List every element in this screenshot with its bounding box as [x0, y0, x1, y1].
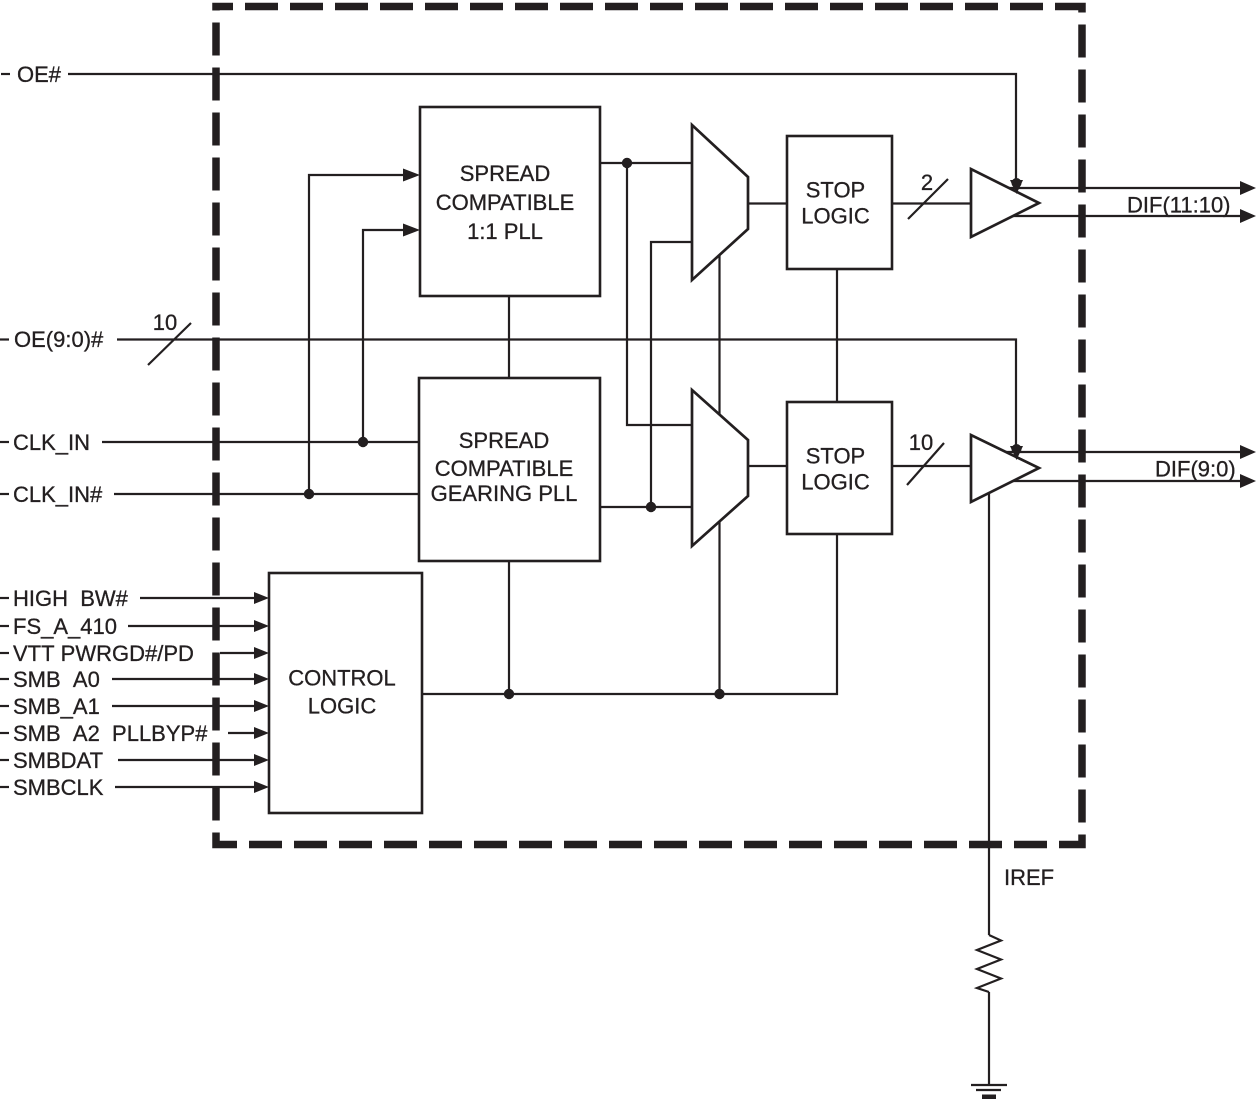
wire PLL2 output to mux M2 input B — [600, 506, 692, 508]
svg-text:VTT PWRGD#/PD: VTT PWRGD#/PD — [13, 641, 194, 666]
svg-text:OE#: OE# — [17, 62, 62, 87]
svg-text:CONTROL: CONTROL — [288, 666, 396, 691]
svg-text:IREF: IREF — [1004, 865, 1054, 890]
mux M2 lower — [692, 390, 748, 546]
svg-text:SPREAD: SPREAD — [459, 428, 549, 453]
wire OE# horizontal and down to buffer U1 — [68, 74, 1016, 182]
svg-text:COMPATIBLE: COMPATIBLE — [435, 456, 574, 481]
junction CLK_IN# — [304, 489, 314, 499]
wire stop logic S1 bottom to stop logic S2 top — [836, 269, 838, 402]
wire SMB_A1 — [112, 705, 256, 707]
wire stop logic S2 output to buffer U2 — [892, 465, 971, 467]
mux M1 upper — [692, 125, 748, 280]
wire SMBDAT — [118, 759, 256, 761]
buffer U1 upper output driver — [971, 169, 1039, 237]
svg-text:LOGIC: LOGIC — [801, 470, 870, 495]
wire resistor to ground — [988, 992, 990, 1085]
wire PLL1 output to mux M1 input A — [600, 162, 692, 164]
bus slash 10b — [907, 443, 944, 485]
wire node A branch down to mux M2 input A — [627, 163, 692, 425]
svg-text:10: 10 — [153, 310, 177, 335]
wire CLK_IN# branch up to 1:1 PLL upper input — [309, 175, 405, 494]
svg-text:STOP: STOP — [806, 444, 866, 469]
wire mux select vertical — [718, 255, 720, 694]
junction CLK_IN — [358, 437, 368, 447]
wire VTT PWRGD#/PD — [220, 652, 256, 654]
wire stop logic S1 output to buffer U1 — [892, 202, 971, 204]
pin dash CLK_IN — [0, 441, 9, 443]
wire control logic output bus — [422, 534, 837, 694]
wire SMBCLK — [115, 786, 256, 788]
wire HIGH BW# — [140, 597, 256, 599]
wire DIF(9:0) output complement — [1013, 480, 1241, 482]
svg-text:10: 10 — [909, 430, 933, 455]
ground — [971, 1084, 1007, 1086]
box U3 control logic — [269, 573, 422, 813]
svg-text:COMPATIBLE: COMPATIBLE — [436, 190, 575, 215]
svg-text:STOP: STOP — [806, 178, 866, 203]
wire PLL1 to PLL2 vertical — [508, 296, 510, 378]
arrow OE# into buffer U1 — [1010, 180, 1023, 194]
svg-text:LOGIC: LOGIC — [308, 694, 377, 719]
junction control-select — [714, 689, 724, 699]
svg-text:SMB A2 PLLBYP#: SMB A2 PLLBYP# — [13, 721, 208, 746]
wire FS_A_410 — [128, 625, 256, 627]
buffer U2 lower output driver — [971, 435, 1039, 502]
svg-text:1:1 PLL: 1:1 PLL — [467, 219, 543, 244]
wire SMB A0 — [112, 678, 256, 680]
svg-text:GEARING PLL: GEARING PLL — [431, 481, 578, 506]
svg-text:LOGIC: LOGIC — [801, 204, 870, 229]
svg-text:2: 2 — [921, 170, 933, 195]
dashed chip boundary — [216, 7, 1082, 845]
svg-text:SMBDAT: SMBDAT — [13, 748, 103, 773]
arrow into PLL1 upper input — [403, 169, 420, 182]
junction node B — [646, 502, 656, 512]
junction control-PLL2 — [504, 689, 514, 699]
wire mux M2 output to stop logic S2 — [748, 465, 787, 467]
svg-text:HIGH BW#: HIGH BW# — [13, 586, 129, 611]
wire mux M1 output to stop logic S1 — [748, 202, 787, 204]
svg-text:DIF(9:0): DIF(9:0) — [1155, 457, 1236, 482]
svg-text:SPREAD: SPREAD — [460, 161, 550, 186]
wire SMB A2 PLLBYP# — [228, 732, 256, 734]
svg-text:DIF(11:10): DIF(11:10) — [1127, 193, 1231, 218]
wire IREF from buffer U2 down — [988, 493, 990, 935]
box S1 stop logic upper — [787, 136, 892, 269]
resistor R1 — [977, 935, 1001, 992]
svg-text:SMBCLK: SMBCLK — [13, 775, 104, 800]
svg-text:OE(9:0)#: OE(9:0)# — [14, 327, 104, 352]
pin dash OE# — [1, 73, 10, 75]
bus slash 2 — [908, 179, 948, 219]
wire CLK_IN# to gearing PLL — [114, 493, 419, 495]
box PLL2 spread compatible gearing PLL — [419, 378, 600, 561]
wire PLL2 bottom to control bus — [508, 561, 510, 694]
pin dash CLK_IN# — [0, 493, 9, 495]
wire node B branch up to mux M1 input B — [651, 242, 692, 507]
svg-text:SMB_A1: SMB_A1 — [13, 694, 100, 719]
arrow OE(9:0)# into buffer U2 — [1010, 446, 1023, 460]
box PLL1 spread compatible 1:1 PLL — [420, 107, 600, 296]
svg-text:CLK_IN: CLK_IN — [13, 430, 90, 455]
box S2 stop logic lower — [787, 402, 892, 534]
bus slash OE(9:0)# — [148, 323, 191, 365]
wire DIF(9:0) output true — [1006, 451, 1241, 453]
svg-text:CLK_IN#: CLK_IN# — [13, 482, 103, 507]
svg-text:FS_A_410: FS_A_410 — [13, 614, 117, 639]
wire CLK_IN branch up to 1:1 PLL lower input — [363, 230, 405, 442]
pin dash OE(9:0)# — [0, 338, 9, 340]
wire DIF(11:10) output complement — [1013, 215, 1241, 217]
svg-text:SMB A0: SMB A0 — [13, 667, 100, 692]
arrow into PLL1 lower input — [403, 224, 420, 237]
wire CLK_IN to gearing PLL — [102, 441, 419, 443]
wire DIF(11:10) output true — [1009, 187, 1241, 189]
junction node A — [622, 158, 632, 168]
wire OE(9:0)# horizontal and down to buffer U2 — [117, 340, 1016, 449]
